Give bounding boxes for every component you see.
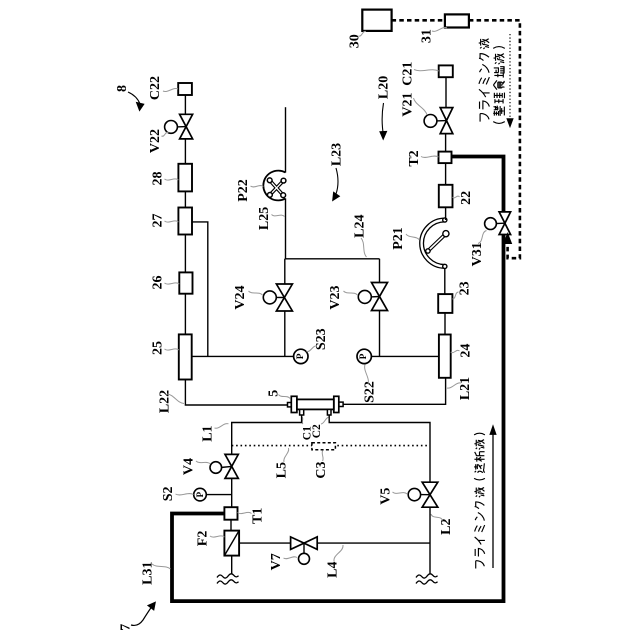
leader T1 [238,512,252,513]
svg-text:L23: L23 [329,143,344,166]
valve V4 [225,454,238,466]
leader L22 [167,394,184,404]
leader L21 [447,383,461,388]
svg-text:25: 25 [150,341,165,355]
svg-text:S23: S23 [314,328,329,350]
leader 31 [432,27,447,31]
svg-text:S2: S2 [161,487,176,502]
svg-text:C2: C2 [311,424,323,438]
svg-text:P21: P21 [391,227,406,250]
leader V21 [414,98,428,115]
dialyzer port C1 [300,409,304,415]
dialyzer 5 left nipple [288,403,292,407]
svg-text:F2: F2 [196,531,211,547]
svg-text:27: 27 [150,214,165,228]
component 26 [179,272,192,293]
svg-text:24: 24 [459,344,474,358]
leader L2 [431,514,443,521]
leader C22 [163,88,178,91]
leader T2 [421,156,439,157]
leader V5 [393,492,408,494]
leader V23 [344,291,358,295]
valve V5 [422,482,438,495]
wire 28-27 [184,191,186,207]
svg-text:8: 8 [115,85,130,92]
wire F2-V7 [239,542,291,544]
dialyzer 5 right cap [334,396,339,412]
svg-text:P: P [195,491,205,497]
component 23 [438,294,452,313]
leader 23 [452,292,458,299]
wire 26-25 [184,294,186,335]
svg-text:C3: C3 [314,461,329,478]
leader V31 [478,231,487,244]
svg-text:L24: L24 [352,215,367,238]
wire V7-L4 [317,542,430,544]
annotation priming saline arrow (dotted) [509,34,511,119]
filter F2 [224,531,239,556]
component 25 [179,334,192,379]
pump P22 [263,171,285,201]
wire thick T2-V31 [452,157,504,212]
gauge S23 [294,349,308,363]
leader V7 [284,557,298,559]
leader P21 [406,234,420,240]
leader V24 [249,291,263,295]
arrow to subsystem 8 [128,92,140,104]
leader C3 [321,451,324,462]
valve V7 [291,537,304,550]
wire junction L24 [285,258,380,260]
svg-text:T1: T1 [250,508,265,524]
svg-text:L22: L22 [157,390,172,413]
wire L22 [185,380,287,406]
wire L1 [232,415,302,454]
wire V4-T1 [231,478,233,507]
component 27 [178,208,192,235]
wire V21-C21 [445,77,447,107]
container C22 [178,83,192,95]
valve V23 [372,283,388,297]
svg-text:P: P [359,353,369,359]
annotation priming saline text [479,39,490,122]
svg-text:V31: V31 [470,242,485,266]
wire T1-F2 [230,520,232,531]
leader L5 [284,448,289,462]
wire junction-V24 [284,259,286,284]
arrow to circuit 7 [131,607,152,625]
valve V24 [276,284,292,298]
svg-text:V4: V4 [182,458,197,475]
gauge S2 [206,494,231,496]
gauge S22 [357,349,371,363]
component T2 [439,152,452,164]
leader C2 [321,417,329,424]
svg-text:V5: V5 [379,488,394,505]
svg-text:C22: C22 [148,76,163,100]
arrow L20 [382,103,383,132]
wire 23-P21 [444,266,446,294]
wire L23 stub (P22 top pipe) [285,107,287,172]
svg-text:L1: L1 [201,425,216,441]
wire V23-S22 [379,311,381,357]
wire thick V31-down-bottom-left-T1 [172,235,504,602]
component 28 [178,164,192,192]
dialyzer 5 body [297,399,334,409]
svg-text:T2: T2 [407,150,422,166]
svg-text:L4: L4 [325,562,340,578]
leader 30 [359,31,367,36]
wire 22-T2 [445,163,447,185]
svg-text:V21: V21 [401,93,416,117]
svg-text:S22: S22 [362,381,377,403]
pump P21 [422,220,445,266]
leader L1 [215,424,229,429]
leader 27 [165,221,179,222]
leader S23 [307,346,318,352]
svg-text:L5: L5 [275,462,290,478]
wire V24-S23 [284,311,286,356]
dashed supply wire 31-V31 [469,20,520,258]
leader 5 [279,395,291,399]
wire V5-junction-drain [429,507,431,574]
valve V21 [440,108,453,121]
leader C1 [302,417,303,424]
svg-text:L20: L20 [377,76,392,99]
leader 26 [165,283,180,284]
leader 22 [453,196,460,198]
svg-text:L25: L25 [257,207,272,230]
leader F2 [210,536,224,537]
dialyzer 5 right nipple [339,402,343,406]
svg-text:22: 22 [459,191,474,205]
svg-text:L21: L21 [458,377,473,400]
leader L25 [272,215,285,217]
valve V31 [499,212,511,223]
valve V22 [180,114,193,126]
svg-text:23: 23 [458,281,473,295]
wire L2 [329,415,430,482]
wire F2-drain [231,556,233,574]
svg-text:V24: V24 [233,285,248,309]
wire branch 27 right [192,222,208,357]
svg-text:V22: V22 [148,129,163,153]
annotation priming dialysate arrow [492,433,494,568]
component 24 [439,335,451,378]
svg-text:P22: P22 [236,179,251,202]
dialyzer 5 left cap [291,396,297,412]
leader V4 [196,461,211,464]
svg-text:C21: C21 [401,62,416,86]
wire 27-26 [184,235,186,273]
wire V23 riser [379,259,381,283]
svg-text:P: P [296,353,306,359]
arrow L23 [336,168,338,194]
wire C22-V22 [184,95,186,114]
component 22 [439,185,453,208]
annotation priming dialysate text [474,433,485,568]
dialyzer port C2 [327,409,331,415]
wire T2-V21 [445,134,447,152]
leader V22 [162,132,169,136]
sensor C3 (dashed box) [312,443,336,450]
container C21 [439,65,453,77]
svg-text:28: 28 [150,172,165,186]
wire P21-22 [445,207,447,220]
wire V22-28 [184,139,186,164]
pump 31 [445,14,469,27]
dashed supply arrowhead [504,234,512,244]
svg-text:L2: L2 [439,519,454,535]
tank 30 [362,10,391,31]
leader S2 [176,494,194,495]
wire L5 (dotted) [232,445,430,447]
leader 24 [451,350,460,352]
component T1 [224,507,237,520]
svg-text:26: 26 [150,276,165,290]
wire L21 [343,378,446,405]
leader 25 [165,349,179,350]
wire 24-23 [444,313,446,335]
leader L31 [152,564,171,569]
svg-text:V7: V7 [269,553,284,570]
drain break (F2) [217,574,239,578]
drain break (V5) [416,574,438,578]
leader L4 [334,545,343,561]
leader 28 [165,179,179,180]
wire S23 line [192,355,294,357]
svg-text:V23: V23 [328,285,343,309]
leader P22 [251,186,264,187]
leader C21 [414,70,439,72]
dashed wire 30-31 [392,19,445,22]
leader L24 [361,238,367,257]
wire L25 [285,198,287,258]
leader S22 [365,365,369,385]
wire S22 line [371,355,439,357]
